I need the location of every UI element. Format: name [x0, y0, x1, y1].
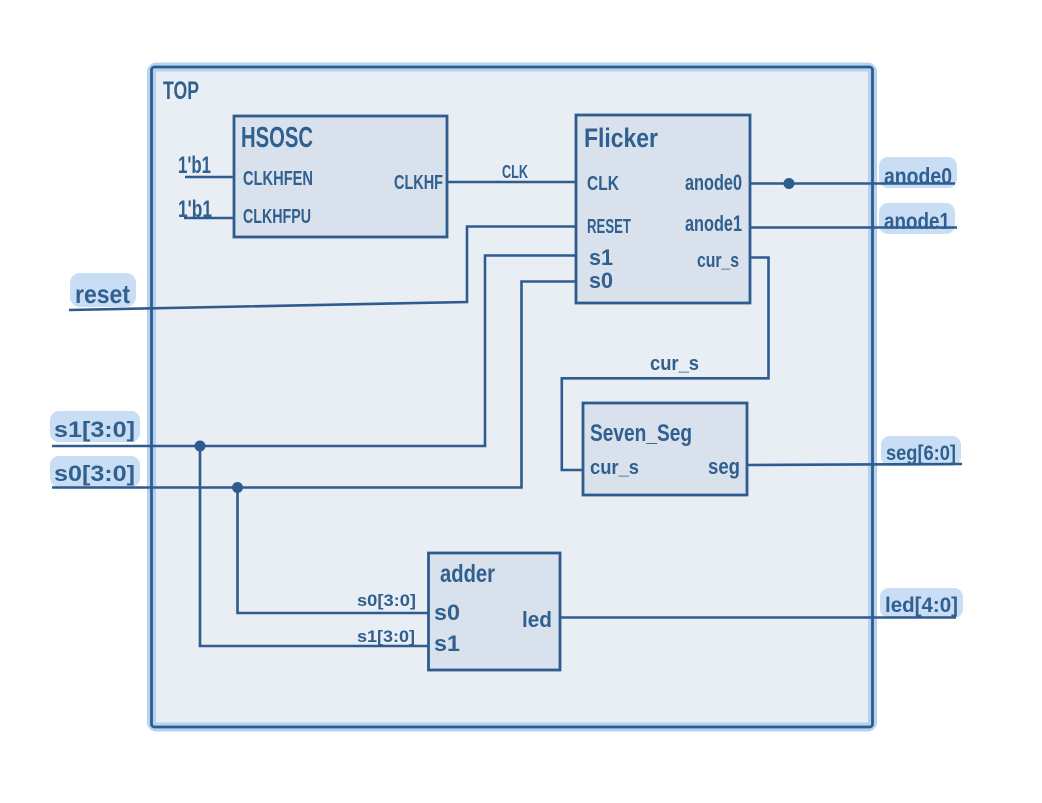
svg-text:reset: reset — [75, 279, 130, 309]
svg-text:RESET: RESET — [587, 216, 631, 238]
svg-text:s1: s1 — [434, 631, 460, 656]
wire seg output — [747, 464, 962, 465]
module Seven_Seg — [583, 403, 747, 495]
svg-text:seg[6:0]: seg[6:0] — [886, 442, 956, 465]
wire 1'b1 to CLKHFEN — [185, 176, 234, 179]
svg-text:s0[3:0]: s0[3:0] — [54, 461, 135, 486]
svg-text:s1[3:0]: s1[3:0] — [54, 417, 135, 442]
svg-text:anode1: anode1 — [685, 211, 742, 236]
svg-text:adder: adder — [440, 560, 495, 588]
svg-text:1'b1: 1'b1 — [178, 196, 212, 223]
module TOP outer box — [152, 67, 873, 727]
svg-text:s0[3:0]: s0[3:0] — [357, 591, 416, 610]
port highlight seg[6:0] — [881, 436, 961, 466]
junction anode0 — [784, 178, 795, 189]
module HSOSC — [234, 116, 447, 237]
wire anode1 output — [750, 226, 957, 229]
wire s1 branch to adder — [200, 446, 429, 646]
svg-text:cur_s: cur_s — [650, 353, 699, 375]
svg-text:CLKHFEN: CLKHFEN — [243, 168, 313, 190]
wire reset to RESET — [69, 227, 576, 311]
svg-text:s1: s1 — [589, 245, 613, 270]
wire cur_s Flicker to Seven_Seg — [562, 258, 769, 471]
wire s0 input net — [52, 282, 576, 488]
port highlight led[4:0] — [880, 588, 963, 618]
module Flicker — [576, 115, 750, 303]
svg-text:1'b1: 1'b1 — [178, 152, 211, 179]
svg-text:HSOSC: HSOSC — [241, 122, 313, 154]
port highlight s1[3:0] — [50, 411, 140, 442]
svg-text:led: led — [522, 607, 552, 632]
port highlight anode0 — [879, 157, 957, 188]
svg-text:CLK: CLK — [587, 173, 619, 195]
svg-text:cur_s: cur_s — [590, 457, 639, 479]
wire s0 branch to adder — [238, 488, 429, 614]
wire anode0 output — [750, 182, 955, 185]
svg-text:s1[3:0]: s1[3:0] — [357, 627, 415, 646]
module adder — [429, 553, 561, 670]
svg-text:TOP: TOP — [163, 77, 199, 105]
svg-text:led[4:0]: led[4:0] — [885, 594, 958, 617]
svg-text:anode1: anode1 — [884, 208, 950, 234]
wire s1 input net — [52, 256, 576, 447]
svg-text:seg: seg — [708, 454, 740, 479]
port highlight anode1 — [879, 203, 955, 234]
wire 1'b1 to CLKHFPU — [184, 217, 234, 220]
wire led output — [560, 616, 956, 619]
svg-text:anode0: anode0 — [685, 170, 742, 195]
svg-text:anode0: anode0 — [884, 163, 952, 189]
svg-text:s0: s0 — [589, 268, 613, 293]
svg-text:Flicker: Flicker — [584, 123, 658, 153]
svg-text:CLKHFPU: CLKHFPU — [243, 206, 311, 228]
svg-text:cur_s: cur_s — [697, 250, 739, 272]
svg-text:CLK: CLK — [502, 162, 528, 182]
junction s1 — [195, 441, 206, 452]
svg-text:s0: s0 — [434, 600, 460, 625]
port highlight reset — [70, 273, 136, 307]
svg-text:Seven_Seg: Seven_Seg — [590, 420, 692, 447]
wire CLKHF to CLK — [447, 181, 576, 184]
port highlight s0[3:0] — [50, 456, 140, 487]
svg-text:CLKHF: CLKHF — [394, 172, 443, 194]
junction s0 — [232, 482, 243, 493]
